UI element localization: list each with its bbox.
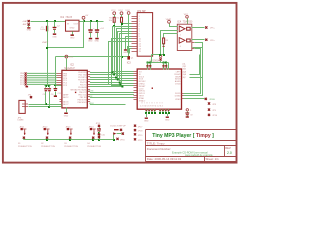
- label IC2 pin names right: [77, 72, 87, 104]
- wire header pin to bundle v3: [117, 29, 134, 76]
- svg-text:IIIIIIIIIIIIII: IIIIIIIIIIIIII: [141, 102, 164, 104]
- capacitor drops into IC3 top 4: [165, 63, 167, 70]
- node junction at 47,47.6: [46, 47, 48, 49]
- svg-text:TITLE: Timpy: TITLE: Timpy: [147, 141, 165, 145]
- switch S1: [18, 126, 32, 147]
- svg-text:Tiny MP3 Player [ Timpy ]: Tiny MP3 Player [ Timpy ]: [152, 133, 214, 139]
- svg-text:PUSHBUTTON: PUSHBUTTON: [64, 146, 78, 148]
- wire X stack to IC2: [27, 73, 57, 84]
- wire amp out 1 with X: [192, 27, 205, 29]
- op IC3 mp3 decoder body: [137, 69, 181, 109]
- svg-text:GND: GND: [52, 36, 57, 38]
- capacitor C3 electrolytic with ground: [88, 22, 95, 43]
- svg-text:MEGA8-P: MEGA8-P: [64, 67, 75, 70]
- wire vertical from C1 down: [47, 22, 49, 86]
- pin X col mid 2: [134, 129, 143, 133]
- wire amp input 2: [164, 34, 178, 39]
- wire buttons common: [24, 139, 114, 141]
- pin stubs JP2 left: [132, 17, 138, 52]
- svg-text:GND: GND: [95, 41, 100, 43]
- svg-text:3.5MM: 3.5MM: [17, 120, 23, 122]
- svg-text:VBAT: VBAT: [166, 18, 172, 21]
- wire VS right pin 3 to jack X: [184, 98, 205, 100]
- node bundle crossing junctions: [112, 72, 124, 88]
- switch S3: [64, 126, 78, 147]
- wire line out right: [29, 106, 62, 108]
- wire drop into IC3 top 5: [168, 63, 170, 70]
- svg-text:GND: GND: [64, 116, 69, 118]
- svg-text:(6)C: (6)C: [182, 77, 186, 79]
- ground below X stack: [26, 86, 29, 88]
- svg-text:78L05: 78L05: [65, 16, 72, 19]
- label IC3 pin names right: [174, 72, 181, 101]
- capacitor bars bottom group1: [145, 109, 155, 112]
- power circle near C9: [186, 109, 191, 113]
- node cap pair junctions: [45, 85, 50, 87]
- wire MCU right pins to bundle: [90, 73, 134, 105]
- diode D1: [110, 125, 126, 139]
- svg-text:IC4: IC4: [177, 21, 181, 24]
- svg-text:VBATT: VBATT: [42, 41, 49, 44]
- wire header lower pins to bundle: [112, 39, 134, 87]
- frame border: [3, 3, 237, 163]
- node junctions on lineout wires: [45, 103, 50, 108]
- node junction 121.5,56.8: [121, 56, 123, 58]
- op-amp triangle B: [179, 38, 185, 44]
- svg-text:MISO: MISO: [89, 103, 94, 105]
- wire header pins to crystal area: [128, 47, 132, 54]
- wire cap pair top: [45, 85, 51, 87]
- svg-text:C11: C11: [58, 93, 61, 95]
- svg-text:(2)R: (2)R: [182, 66, 186, 68]
- capacitor drops into IC3 top 3: [162, 63, 164, 70]
- wire battery rail: [31, 21, 66, 23]
- op IC2 microcontroller body: [62, 70, 87, 108]
- svg-text:OUT: OUT: [74, 24, 79, 26]
- crystal Y1 near header bottom: [127, 56, 133, 59]
- capacitor bars bottom group2: [159, 109, 169, 112]
- wire VS right pin 3 up: [190, 55, 200, 75]
- svg-text:GND: GND: [88, 41, 93, 43]
- wire header pin to ground: [123, 37, 131, 55]
- svg-text:Q1: Q1: [131, 58, 134, 60]
- wire header pin to bundle v5: [120, 34, 134, 81]
- wire from third circle down to IC3 top rail: [128, 15, 130, 57]
- svg-text:DC/DC STEP UP: DC/DC STEP UP: [110, 125, 126, 127]
- svg-text:4: 4: [180, 46, 181, 48]
- svg-text:AVCC: AVCC: [63, 96, 69, 99]
- pin X jack common: [205, 98, 216, 101]
- power VCC circle above IC2: [65, 55, 74, 70]
- resistor R2: [117, 15, 134, 84]
- svg-text:2: 2: [180, 34, 181, 36]
- svg-text:TDA7050: TDA7050: [183, 21, 193, 24]
- svg-text:JP6+: JP6+: [210, 40, 216, 42]
- node junctions group1: [145, 112, 156, 114]
- svg-text:MOSI: MOSI: [89, 91, 94, 93]
- capacitor C4 electrolytic with ground: [95, 22, 105, 43]
- op-amp IC4 body: [177, 24, 192, 50]
- pin stubs IC2 right: [88, 72, 91, 102]
- label IC3 bottom pin numbers: [140, 102, 164, 107]
- pin X output col 3: [208, 109, 217, 112]
- svg-text:GND: GND: [144, 121, 149, 123]
- svg-text:IC3: IC3: [127, 61, 131, 64]
- svg-text:2.0: 2.0: [227, 151, 232, 155]
- connector JP2 header body: [137, 13, 152, 57]
- node junction avcc: [54, 84, 56, 86]
- capacitor C11 avcc decoupling: [54, 86, 61, 98]
- pin stubs amp right lower: [192, 43, 195, 49]
- svg-text:CVDD: CVDD: [175, 84, 181, 86]
- label IC3 center dot: [152, 88, 153, 89]
- svg-text:ADC7: ADC7: [63, 103, 69, 106]
- node +5V junctions: [83, 20, 98, 22]
- wire IC3 bottom pins group1: [146, 109, 154, 112]
- svg-text:100u: 100u: [40, 29, 46, 31]
- connector JP3 line out: [17, 100, 28, 121]
- label net names green: [89, 91, 95, 105]
- resistor feedback A: [187, 27, 191, 30]
- wire header lower pin 2: [109, 42, 132, 85]
- svg-text:IC1: IC1: [60, 16, 64, 19]
- wire line out left: [29, 104, 62, 106]
- label IC3 pin names left: [139, 72, 146, 103]
- pin X SPK-: [205, 39, 215, 42]
- wire amp to VS right pin 1: [184, 49, 201, 94]
- pin stubs IC2 left top: [57, 74, 62, 85]
- svg-text:1: 1: [190, 110, 191, 112]
- capacitor C1 on battery rail: [40, 26, 48, 32]
- node battery rail junctions: [46, 20, 56, 22]
- svg-text:PUSHBUTTON: PUSHBUTTON: [87, 146, 101, 148]
- svg-text:+BATT: +BATT: [22, 20, 29, 23]
- wire from amp area bundle down: [151, 55, 153, 63]
- svg-text:VCC: VCC: [69, 57, 74, 59]
- label IC2 pin names left: [63, 73, 69, 106]
- ground IC1: [70, 32, 75, 40]
- svg-text:(1)L: (1)L: [182, 63, 185, 65]
- svg-text:VCC: VCC: [118, 10, 123, 12]
- op-amp triangle A: [179, 26, 185, 32]
- node junctions group2: [159, 112, 170, 114]
- pin X col mid 3: [134, 133, 143, 137]
- label net names right of IC3: [182, 63, 186, 79]
- ground group2: [165, 114, 170, 122]
- pin X below diode: [116, 138, 125, 142]
- power circle above amp: [184, 14, 189, 25]
- pin header X stack left of IC2: [25, 72, 27, 85]
- svg-text:DGND: DGND: [175, 96, 181, 98]
- capacitor drops into IC3 top 2: [149, 63, 151, 70]
- pin X -BATT: [28, 23, 30, 25]
- power supply circle third: [125, 10, 130, 14]
- svg-text:GND: GND: [165, 120, 170, 122]
- capacitor C9: [185, 112, 192, 117]
- svg-text:(3)G: (3)G: [182, 69, 186, 71]
- svg-text:GND: GND: [70, 37, 75, 39]
- svg-text:VCC: VCC: [125, 10, 130, 12]
- wire AVCC rail: [56, 57, 129, 86]
- pin X output col 4: [208, 114, 218, 117]
- pin X output col 2: [208, 102, 217, 105]
- pin X +BATT: [28, 20, 30, 22]
- svg-text:PUSHBUTTON: PUSHBUTTON: [18, 146, 32, 148]
- power supply circle R1 top: [111, 10, 116, 14]
- svg-text:PUSHBUTTON: PUSHBUTTON: [41, 146, 55, 148]
- svg-text:PB4 MISO: PB4 MISO: [77, 102, 86, 104]
- pin X col mid 4: [134, 138, 143, 142]
- resistor R1: [109, 15, 134, 74]
- ground IC2 bottom: [64, 108, 69, 118]
- capacitor C5 coupling: [43, 86, 48, 105]
- capacitor drops into IC3 top 1: [146, 63, 148, 70]
- wire bottom bundle horizontal: [152, 54, 164, 56]
- label JP2 pin texts: [139, 16, 142, 53]
- svg-text:XRES: XRES: [175, 99, 181, 101]
- svg-text:10k: 10k: [109, 20, 112, 22]
- power circle amp VCC: [166, 18, 178, 27]
- svg-text:1 2 3 4 5 6 7 8 9 0 1 2 3 4: 1 2 3 4 5 6 7 8 9 0 1 2 3 4: [140, 106, 164, 108]
- title block frame: [146, 130, 237, 162]
- pin stubs IC2 left bottom: [60, 100, 63, 107]
- wire amp input 1: [161, 31, 178, 55]
- power +5V supply circle: [82, 15, 89, 22]
- ground below -BATT: [27, 26, 32, 32]
- svg-text:JP10: JP10: [212, 115, 218, 117]
- svg-text:JPGB: JPGB: [209, 99, 215, 101]
- svg-text:GND: GND: [27, 30, 32, 32]
- label X stack texts: [20, 73, 25, 86]
- svg-text:ADC6: ADC6: [63, 101, 69, 104]
- capacitor C2 with ground: [52, 22, 60, 39]
- pin X col mid 1: [134, 125, 143, 129]
- wire header pin to bundle v0: [113, 27, 134, 72]
- wire VS right pin 4 up: [190, 48, 203, 78]
- pin X SPK+: [205, 26, 215, 29]
- wire +5V rail: [80, 21, 104, 23]
- op-amp IC1 regulator body: [66, 20, 80, 31]
- svg-text:MEGA8: MEGA8: [71, 88, 79, 91]
- pin X test pad above JP3: [28, 95, 32, 99]
- svg-text:Document Number:: Document Number:: [147, 147, 171, 151]
- svg-text:-BATT: -BATT: [22, 23, 28, 26]
- svg-text:AREF: AREF: [63, 93, 69, 96]
- switch S4: [87, 126, 101, 147]
- pin stubs IC3 left: [134, 72, 137, 100]
- node button junctions: [46, 139, 115, 141]
- svg-text:VCC: VCC: [111, 10, 116, 12]
- node junctions top rail: [147, 62, 167, 64]
- svg-text:REV:: REV:: [225, 146, 231, 150]
- capacitor C6 coupling: [48, 86, 55, 107]
- ground group1: [144, 114, 149, 123]
- wire R2 to header pin: [122, 23, 132, 25]
- resistor feedback B: [187, 39, 191, 42]
- capacitor column at common node: [96, 123, 106, 140]
- svg-text:GND: GND: [70, 28, 75, 30]
- power circle with X above rail: [159, 55, 161, 63]
- power supply circle R2 top: [118, 10, 123, 14]
- switch S2: [41, 126, 55, 147]
- resistor R3: [163, 38, 170, 55]
- wire +BATT tap down to lower rail: [48, 22, 84, 48]
- wire amp to VS right pin 2: [184, 43, 203, 96]
- svg-text:Date: 2006-05-14 09:11:43: Date: 2006-05-14 09:11:43: [147, 157, 182, 161]
- wire IC3 top decoupling rail: [147, 62, 169, 64]
- wire IC3 bottom pins group2: [160, 109, 168, 112]
- wire header pin to bundle v4: [118, 32, 134, 79]
- pin stubs IC3 right: [182, 94, 184, 99]
- svg-text:JP5+: JP5+: [210, 28, 216, 30]
- svg-text:C9: C9: [190, 114, 192, 116]
- wire amp out 2 with X: [192, 39, 205, 41]
- svg-text:Sheet: 1/1: Sheet: 1/1: [206, 157, 220, 161]
- node bundle junctions: [113, 23, 123, 27]
- node junctions on bundle: [159, 54, 165, 56]
